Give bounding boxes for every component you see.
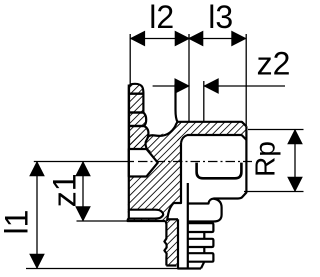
gap right wall (mouth of up connection) <box>176 84 178 122</box>
l1 bottom extension line <box>26 268 178 270</box>
dimension l2 left arrowhead <box>131 32 145 46</box>
dimension z2 left arrowhead <box>175 79 189 93</box>
dimension l3 right arrowhead <box>232 32 246 46</box>
white bore pentagon (left connection bore) <box>129 149 158 177</box>
rib bottom chamfer <box>201 262 204 269</box>
bottom face of down branch <box>177 267 201 269</box>
dimension z2 left leader line <box>153 85 189 87</box>
dimension z2 right arrowhead <box>204 79 218 93</box>
horizontal centerline (axis of horizontal branch), solid left part = ext line <box>34 161 134 163</box>
valley 2 <box>203 247 205 253</box>
axis / half-section boundary line <box>187 183 189 269</box>
right extension line (thread face) <box>245 34 247 126</box>
z1 bottom extension line <box>77 220 128 222</box>
svg-text:l1: l1 <box>0 210 35 235</box>
thread U channel <box>197 163 242 179</box>
top dimension line <box>130 38 246 40</box>
hatched left column segment 2 <box>129 113 146 127</box>
vertical bore left wall upper <box>167 143 181 221</box>
Rp bottom extension line <box>244 191 304 193</box>
dimension l1 bottom arrowhead <box>30 254 44 268</box>
collar (bell) outer profile <box>188 199 222 222</box>
sleeve shoulder line <box>167 218 179 220</box>
rib 1 <box>188 223 214 232</box>
hatched down-branch left sleeve wall <box>166 219 178 265</box>
hatched left column cap <box>129 84 143 94</box>
band top edge <box>178 122 247 127</box>
z2 extension line <box>203 81 205 121</box>
body bottom edge <box>128 219 166 221</box>
hatched left column segment 1 <box>129 94 143 113</box>
dimension z1 top arrowhead <box>76 162 90 176</box>
fitting left face edge <box>128 85 130 210</box>
white slot (gap below body) <box>129 210 163 219</box>
dimension Rp top arrowhead <box>288 130 302 144</box>
middle extension line (vertical branch axis) <box>188 34 190 121</box>
down branch bore left wall lower <box>177 219 179 268</box>
Rp top extension line <box>248 129 304 131</box>
dimension l3 left arrowhead <box>189 32 203 46</box>
dash-dot centerline across fitting <box>138 161 252 163</box>
dimension z1 bottom arrowhead <box>76 207 90 221</box>
hatched main body <box>128 122 181 221</box>
dimension l1 line <box>36 162 38 269</box>
rib 2 <box>188 239 214 247</box>
sleeve bottom <box>166 264 176 266</box>
dimension z2 right leader line <box>204 85 285 87</box>
svg-text:l2: l2 <box>149 0 174 35</box>
dimension Rp line <box>294 130 296 192</box>
svg-text:l3: l3 <box>208 0 233 35</box>
valley 1 <box>203 232 205 239</box>
bore surface outline at mouth bottom (gap floor) <box>148 122 178 138</box>
dimension z1 line <box>82 162 84 222</box>
dimension Rp bottom arrowhead <box>288 177 302 191</box>
svg-text:Rp: Rp <box>250 141 281 177</box>
sleeve outer wavy left edge <box>164 221 166 266</box>
svg-text:z1: z1 <box>47 173 83 207</box>
rib 3 <box>188 253 214 262</box>
band bottom edge + mouth inner chamfer <box>181 135 246 143</box>
svg-text:z2: z2 <box>257 45 291 81</box>
hatched left column segment 3 <box>129 126 150 152</box>
l2 left extension line <box>129 34 131 85</box>
right face line <box>188 126 247 203</box>
dimension l2 right arrowhead <box>175 32 189 46</box>
dimension l1 top arrowhead <box>30 162 44 176</box>
hatched right branch top wall band <box>178 122 247 143</box>
